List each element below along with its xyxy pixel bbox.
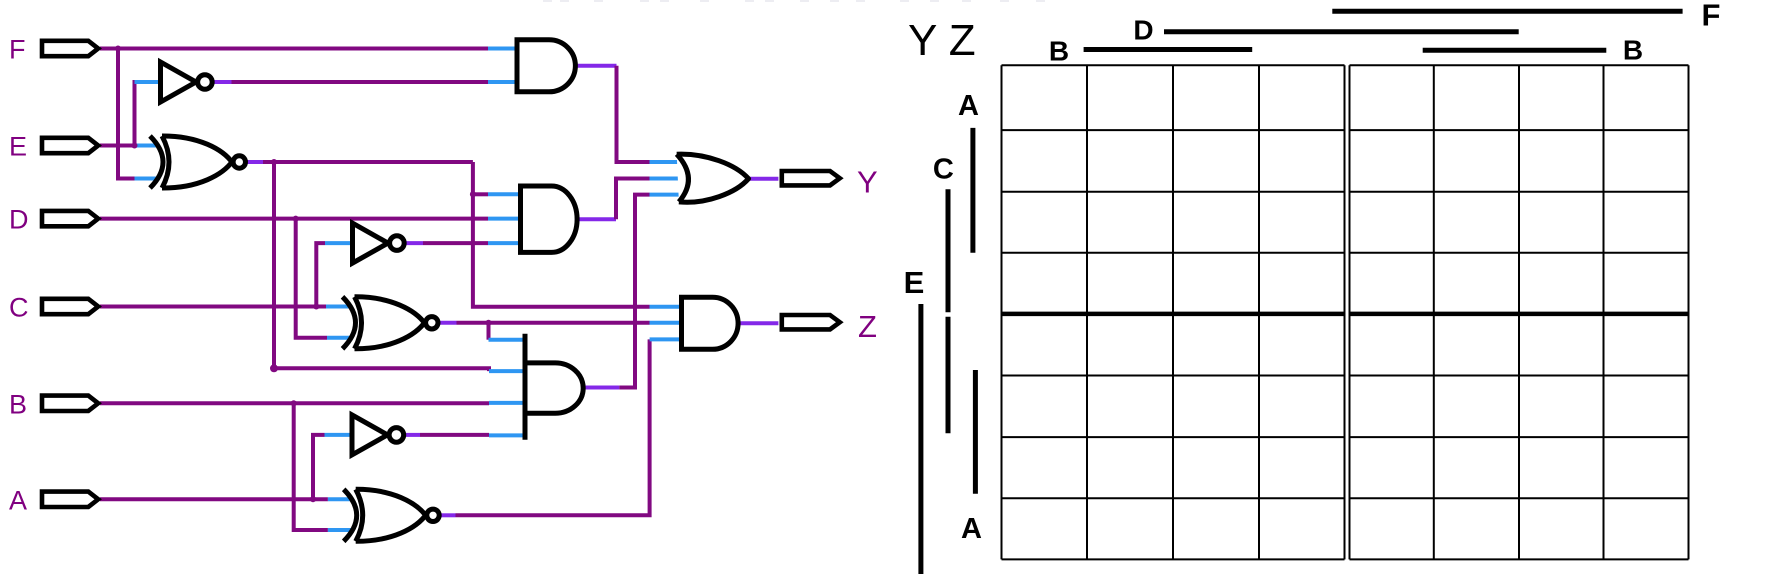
bar D (top) (1164, 29, 1519, 34)
wire XNOR2 branch down to AND3 input-1 (487, 323, 491, 340)
svg-text:A: A (9, 485, 27, 515)
and gate AND1 (F, not E) (517, 40, 575, 92)
input pin C (42, 299, 98, 314)
wire B output horizontal (100, 401, 489, 405)
xnor gate XNOR2 (C,D) (355, 297, 426, 349)
wire NOT1 output stub (violet) (213, 80, 231, 84)
wire XNOR2 input-2 stub (blue) (327, 336, 351, 340)
node junction A-branch (310, 496, 316, 502)
Karnaugh map grid 8x8 (1001, 65, 1003, 559)
wire XNOR3 output stub (violet) (440, 513, 455, 517)
inverter NOT2 (input C) (353, 223, 389, 263)
node junction D-branch (293, 216, 299, 222)
wire ZAND output stub (violet) (739, 321, 779, 325)
node corner dot (270, 364, 278, 372)
node junction E-branch (132, 143, 138, 149)
svg-text:B: B (1049, 36, 1069, 67)
wire AND2 input-2 stub (blue) (488, 217, 522, 221)
bar B right (top) (1423, 48, 1607, 53)
faint cut-off text at top edge (543, 0, 552, 2)
bar A top (left side) (970, 128, 975, 253)
svg-text:F: F (1702, 0, 1721, 32)
bar F (top) (1332, 9, 1682, 14)
wire E output horizontal (100, 144, 135, 148)
wire OR1 input-1 stub (blue) (650, 160, 687, 164)
svg-text:Y: Y (857, 165, 878, 200)
input pin A (42, 492, 98, 507)
wire NOT1 output to AND1 (232, 80, 489, 84)
wire NOT3 output to AND3 (420, 433, 489, 437)
wire ZAND input-1 stub (blue) (650, 305, 684, 309)
svg-text:C: C (933, 154, 954, 186)
wire XNOR1 output horizontal (263, 160, 473, 164)
output pin Z (782, 315, 840, 329)
inverter NOT3 (input A) (352, 415, 388, 455)
wire C output horizontal (100, 305, 326, 309)
and gate AND2 (3-input) (521, 186, 578, 252)
svg-text:E: E (904, 265, 925, 300)
wire F branch vertical to XNOR1 lower input (118, 49, 135, 179)
svg-text:A: A (958, 90, 979, 122)
wire XNOR2 input-1 stub (blue) (326, 305, 351, 309)
wire NOT3 output stub (violet) (405, 433, 420, 437)
node junction B-branch (291, 400, 297, 406)
wire XNOR1 output stub (violet) (247, 160, 264, 164)
wire NOT3 input stub (blue) (325, 433, 353, 437)
bar B left (top) (1084, 47, 1253, 52)
wire OR1 input-2 stub (blue) (650, 177, 691, 181)
wire A branch vertical to NOT3 input (313, 435, 325, 499)
wire AND2 output stub (violet) (577, 217, 616, 221)
wire D output horizontal (100, 217, 488, 221)
wire AND2 output to OR1 (616, 179, 650, 220)
wire AND3 input-1 stub (blue) (489, 338, 527, 342)
wire ZAND input-2 stub (blue) (650, 321, 684, 325)
wire branch to AND2 input-1 (473, 192, 488, 196)
wire XNOR3 input-2 stub (blue) (328, 528, 352, 532)
wire NOT2 output stub (violet) (405, 241, 423, 245)
wire AND1 output to OR1 (617, 66, 650, 162)
wire AND2 input-1 stub (blue) (488, 192, 522, 196)
node junction F-branch (115, 46, 121, 52)
svg-text:B: B (1623, 34, 1643, 65)
wire NOT2 output to AND2 (423, 241, 488, 245)
wire XNOR2 output horizontal (457, 321, 650, 325)
svg-text:D: D (1133, 15, 1153, 46)
wire OR1 input-3 stub (blue) (650, 193, 687, 197)
wire AND3 output up to OR1 (619, 195, 649, 388)
output pin Y (782, 171, 840, 185)
input pin D (42, 211, 98, 226)
wire XNOR2 output stub (violet) (439, 321, 457, 325)
svg-text:D: D (9, 205, 29, 235)
wire AND3 input-3 stub (blue) (489, 401, 526, 405)
bar A bottom (left side) (973, 370, 978, 494)
Karnaugh map center thick line (1002, 312, 1345, 317)
wire F output horizontal (100, 47, 488, 51)
wire NOT1 input stub (blue) (135, 80, 161, 84)
wire C branch vertical to NOT2 input (316, 243, 325, 306)
node junction C-branch (313, 304, 319, 310)
svg-text:E: E (9, 132, 27, 162)
wire A output horizontal (100, 497, 328, 501)
svg-text:A: A (961, 513, 982, 545)
wire XNOR3 output up to ZAND (456, 339, 650, 515)
wire XNOR3 input-1 stub (blue) (328, 497, 352, 501)
wire AND1 input-2 stub (blue) (488, 80, 518, 84)
svg-text:C: C (9, 293, 29, 323)
input pin B (42, 396, 98, 411)
wire AND3 input-4 stub (blue) (489, 433, 526, 437)
inverter NOT1 (input E) (161, 62, 197, 102)
wire AND3 output stub (violet) (583, 386, 619, 390)
wire AND1 input-1 stub (blue) (488, 47, 518, 51)
wire AND1 output stub (violet) (575, 64, 616, 68)
wire B branch vertical to XNOR3 input-2 (294, 403, 328, 530)
xnor gate XNOR1 (E,F) (162, 136, 233, 188)
and gate AND3 (4-input) (525, 363, 583, 413)
node junction XNOR1-branch (271, 159, 277, 165)
bar E (left side) (918, 304, 923, 574)
wire XNOR1 main vertical to ZAND input-1 (473, 162, 650, 307)
input pin F (42, 41, 98, 56)
wire ZAND input-3 stub (blue) (650, 337, 683, 341)
wire XNOR1 branch down to AND3 input-2 (274, 162, 489, 371)
wire XNOR1 input-2 stub (blue) (135, 177, 159, 181)
bar C (left side) (946, 189, 951, 312)
wire AND2 input-3 stub (blue) (488, 241, 522, 245)
svg-text:Z: Z (858, 309, 877, 344)
wire AND3 input-2 stub (blue) (489, 369, 526, 373)
wire E branch vertical to NOT1 input (135, 82, 137, 146)
xnor gate XNOR3 (A,B) (356, 489, 427, 541)
wire XNOR1 input-1 stub (blue) (135, 144, 159, 148)
and gate ZAND (3-input, output Z) (682, 297, 739, 349)
svg-text:F: F (9, 35, 26, 65)
svg-text:B: B (9, 389, 27, 419)
or gate OR1 (output Y) (677, 154, 749, 202)
wire NOT2 input stub (blue) (325, 241, 353, 245)
wire OR1 output stub (violet) (750, 177, 779, 181)
node junction AND2-in1 (470, 191, 476, 197)
svg-text:Y Z: Y Z (908, 16, 976, 65)
wire D branch vertical to XNOR2 input-2 (296, 219, 327, 338)
input pin E (42, 138, 98, 153)
node junction XNOR2-branch (486, 320, 492, 326)
